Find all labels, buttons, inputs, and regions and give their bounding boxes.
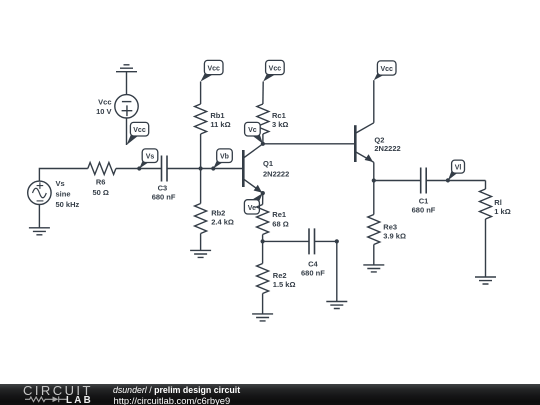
svg-text:2.4 kΩ: 2.4 kΩ <box>211 217 234 226</box>
svg-text:Q1: Q1 <box>263 159 273 168</box>
capacitor C1 680 nF <box>412 168 436 215</box>
junction node out <box>372 178 376 182</box>
ground below C4 <box>326 302 347 309</box>
wire node B to Rb2 <box>200 169 202 204</box>
wire C1 to Vl <box>426 180 485 182</box>
svg-text:680 nF: 680 nF <box>152 192 176 201</box>
net flag Vc <box>245 122 263 143</box>
svg-text:680 nF: 680 nF <box>412 205 436 214</box>
wire Re3 to ground <box>373 245 375 265</box>
wire Re2 to ground <box>262 294 264 314</box>
svg-text:50 Ω: 50 Ω <box>92 188 108 197</box>
junction node E (Q1 emitter) <box>261 191 265 195</box>
svg-text:Re3: Re3 <box>383 222 397 231</box>
svg-text:C4: C4 <box>308 259 318 268</box>
wire Vs bottom to ground <box>38 205 40 228</box>
resistor Re2 1.5 kohm <box>257 264 296 294</box>
svg-text:11 kΩ: 11 kΩ <box>210 120 230 129</box>
net flag Vb <box>211 149 232 171</box>
svg-text:Rb1: Rb1 <box>210 111 224 120</box>
svg-text:68 Ω: 68 Ω <box>272 219 288 228</box>
svg-text:1.5 kΩ: 1.5 kΩ <box>273 280 296 289</box>
svg-text:Rl: Rl <box>494 198 502 207</box>
junction node E2 <box>261 239 265 243</box>
svg-text:Re2: Re2 <box>273 271 287 280</box>
svg-text:3.9 kΩ: 3.9 kΩ <box>383 231 406 240</box>
resistor Rb2 2.4 kohm <box>195 204 234 234</box>
svg-text:C3: C3 <box>158 183 168 192</box>
ground below Re3 <box>363 265 384 272</box>
capacitor C3 680 nF <box>152 156 176 202</box>
ground below Rl <box>475 277 496 284</box>
ground below Vs <box>29 228 50 235</box>
svg-text:Vcc: Vcc <box>269 65 282 72</box>
svg-text:2N2222: 2N2222 <box>263 170 289 179</box>
ground below Re2 <box>252 314 273 321</box>
svg-text:10 V: 10 V <box>96 107 111 116</box>
net flag Vcc at source <box>127 122 149 145</box>
svg-text:Vcc: Vcc <box>207 65 220 72</box>
wire down to Rl <box>485 181 487 190</box>
wire Vcc flag to Q2 collector <box>373 80 375 123</box>
wire C3 to node B <box>167 168 243 170</box>
wire C4 to ground corner <box>315 241 337 301</box>
svg-text:Ve: Ve <box>248 205 256 212</box>
voltage source Vs sine 50 kHz <box>28 179 80 209</box>
resistor Re1 68 ohm <box>257 205 289 235</box>
net flag Vcc above Q2 <box>374 61 396 80</box>
wire Q1 emitter to Re1 <box>262 193 264 204</box>
svg-text:Vs: Vs <box>56 179 65 188</box>
svg-text:R6: R6 <box>96 178 106 187</box>
wire R6 to C3 <box>116 168 162 170</box>
wire Vcc flag to Rc1 <box>262 82 264 105</box>
voltage source Vcc 10 V <box>96 95 138 118</box>
wire node C to Q2 base <box>263 143 354 145</box>
ground below Rb2 <box>190 250 211 257</box>
svg-text:1 kΩ: 1 kΩ <box>494 207 510 216</box>
bottom bar <box>0 384 540 405</box>
net flag Vs <box>137 149 158 171</box>
wire ground to Vcc source <box>126 72 128 95</box>
svg-text:Rb2: Rb2 <box>211 208 225 217</box>
svg-text:680 nF: 680 nF <box>301 269 325 278</box>
resistor Rc1 3 kohm <box>257 104 289 134</box>
svg-text:Rc1: Rc1 <box>272 111 286 120</box>
svg-text:50 kHz: 50 kHz <box>56 200 80 209</box>
wire node E2 to Re2 <box>262 241 264 263</box>
wire Q2 emitter down to output row <box>373 162 375 180</box>
svg-text:3 kΩ: 3 kΩ <box>272 120 288 129</box>
wire Vcc flag to Rb1 <box>200 82 202 105</box>
svg-text:Vcc: Vcc <box>380 66 393 73</box>
ground above Vcc source <box>116 65 137 72</box>
wire Rl to ground <box>485 219 487 277</box>
wire Rc1 to node C <box>262 134 264 144</box>
url line <box>114 396 231 405</box>
resistor Rl 1 kohm <box>480 189 511 219</box>
wire Vcc source to flag <box>126 118 128 145</box>
CircuitLab logo text <box>23 386 93 396</box>
svg-text:Vs: Vs <box>146 154 155 161</box>
svg-text:Vb: Vb <box>220 154 229 161</box>
svg-text:Vcc: Vcc <box>98 98 111 107</box>
net flag Vl <box>446 160 465 182</box>
junction node B <box>199 166 203 170</box>
capacitor C4 680 nF <box>301 228 325 277</box>
transistor Q2 2N2222 <box>355 123 400 163</box>
CircuitLab logo resistor-diode glyph <box>25 396 67 403</box>
svg-text:2N2222: 2N2222 <box>374 144 400 153</box>
svg-text:Q2: Q2 <box>374 135 384 144</box>
svg-text:C1: C1 <box>419 196 429 205</box>
junction node C <box>261 142 265 146</box>
wire node E2 to C4 <box>263 240 309 242</box>
wire Re1 to node E2 <box>262 235 264 242</box>
svg-text:sine: sine <box>56 189 71 198</box>
svg-text:Vcc: Vcc <box>133 127 146 134</box>
net flag Vcc above Rb1 <box>201 60 223 81</box>
terminal dot at C4 corner <box>335 239 339 243</box>
resistor Re3 3.9 kohm <box>368 215 406 245</box>
wire Rb2 to ground <box>200 234 202 251</box>
resistor Rb1 11 kohm <box>195 104 231 134</box>
svg-text:Vl: Vl <box>455 165 462 172</box>
svg-text:Vc: Vc <box>248 127 257 134</box>
logo LAB text <box>66 397 93 404</box>
wire Rb1 to node B <box>200 134 202 169</box>
transistor Q1 2N2222 <box>243 144 289 193</box>
wire node out down to Re3 <box>373 181 375 215</box>
svg-text:Re1: Re1 <box>272 210 286 219</box>
resistor R6 50 ohm <box>88 163 116 197</box>
net flag Vcc above Rc1 <box>263 60 284 81</box>
wire node out to C1 <box>374 180 421 182</box>
attribution line <box>113 386 240 395</box>
wire Vs top to input row <box>39 169 87 182</box>
net flag Ve <box>244 193 262 214</box>
